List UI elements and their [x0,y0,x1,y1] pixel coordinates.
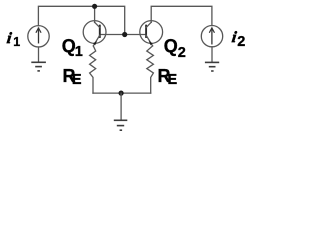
label RE right [158,67,171,85]
resistor RE left [90,46,96,93]
ground under i1 [31,62,46,71]
label i1 [6,31,12,47]
node C junction dot bottom rail [119,91,124,96]
ground center [114,120,128,130]
wire bottom rail to center ground [120,93,122,120]
node A junction dot Q1 collector [92,4,97,9]
wire top-right rail Q2 collector to i2 [151,6,212,25]
label Q2 [164,37,178,55]
transistor Q1 (mirrored, base on right) [83,21,106,46]
wire base net Q1 base to Q2 base [100,34,146,36]
wire i2 to ground [211,47,213,62]
current source i1 [28,26,49,47]
wire Q1 collector lead [94,6,96,22]
wire top-left rail from i1 up over to base-node corner [38,6,124,34]
transistor Q2 [140,21,163,46]
wire i1 to ground [38,47,40,62]
wire bottom rail [93,92,151,94]
ground under i2 [205,62,219,71]
node B junction dot base net [122,32,127,37]
label i2 [231,30,237,46]
label Q1 [62,37,76,55]
resistor RE right [147,46,154,93]
current source i2 [201,26,222,47]
label RE left [63,67,76,85]
